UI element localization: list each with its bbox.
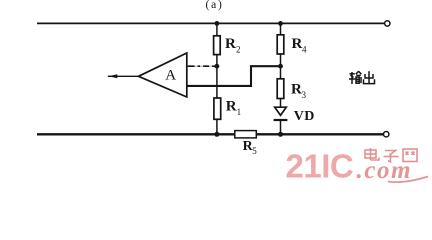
wire R4 bottom lead bbox=[280, 54, 282, 66]
wire top rail bbox=[37, 22, 384, 24]
svg-text:4: 4 bbox=[302, 44, 307, 54]
svg-text:VD: VD bbox=[294, 109, 315, 124]
svg-text:R: R bbox=[225, 36, 236, 52]
watermark char 子 bbox=[384, 151, 399, 163]
label 输出 (output) char 出 bbox=[364, 71, 375, 83]
watermark char 网 bbox=[403, 149, 417, 162]
wire diode to bottom rail bbox=[280, 120, 282, 134]
svg-text:R: R bbox=[291, 82, 302, 98]
svg-text:1: 1 bbox=[237, 107, 242, 117]
wire R4 top lead bbox=[280, 23, 282, 35]
resistor R4 bbox=[277, 35, 284, 54]
svg-text:R: R bbox=[226, 99, 237, 115]
label 输出 (output) char 输 bbox=[349, 71, 361, 84]
wire R2 top lead bbox=[216, 23, 218, 36]
wire R1 top lead bbox=[216, 66, 218, 98]
wire R2 bottom lead bbox=[216, 55, 218, 67]
node bottom-diode bbox=[278, 132, 283, 137]
resistor R2 bbox=[214, 36, 221, 55]
svg-text:2: 2 bbox=[236, 44, 241, 54]
node R4-R3 bbox=[278, 64, 283, 69]
watermark char 电 bbox=[365, 148, 379, 160]
terminal bottom output bbox=[384, 132, 389, 137]
svg-text:R: R bbox=[292, 36, 303, 52]
svg-text:.com: .com bbox=[357, 157, 413, 184]
node top-R4 bbox=[278, 21, 283, 26]
wire R3 top lead bbox=[280, 66, 282, 79]
wire op-amp output to R3/R4 node bbox=[187, 66, 281, 86]
node bottom-R1 bbox=[214, 132, 219, 137]
svg-text:3: 3 bbox=[302, 90, 307, 100]
svg-text:A: A bbox=[165, 68, 176, 84]
watermark 21IC bbox=[286, 147, 354, 184]
wire feedback dashed bbox=[188, 65, 216, 67]
wire bottom rail bbox=[37, 133, 383, 135]
resistor R1 bbox=[214, 98, 221, 119]
node feedback-R2 bbox=[215, 64, 220, 69]
resistor R5 bbox=[235, 131, 256, 138]
svg-text:5: 5 bbox=[252, 146, 257, 156]
wire R3 to diode bbox=[280, 99, 282, 115]
svg-text:(a): (a) bbox=[206, 0, 224, 11]
watermark .com bbox=[357, 157, 429, 184]
resistor R3 bbox=[277, 79, 284, 99]
wire op-amp input arrow bbox=[108, 74, 139, 78]
terminal top output bbox=[385, 21, 390, 26]
svg-text:21IC: 21IC bbox=[286, 147, 354, 184]
node top-R2 bbox=[215, 21, 220, 26]
wire R1 bottom lead bbox=[216, 119, 218, 134]
op-amp U A bbox=[139, 53, 187, 97]
diode VD bbox=[274, 107, 315, 124]
